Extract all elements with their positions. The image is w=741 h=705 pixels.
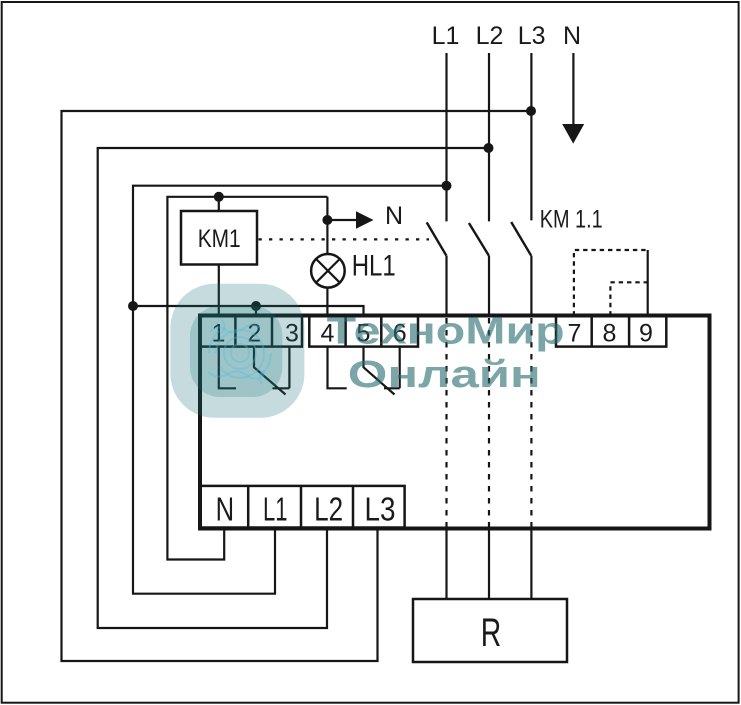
wire phase L3 drop xyxy=(530,53,532,220)
svg-text:N: N xyxy=(385,202,403,230)
node junction on L1 loop at tap xyxy=(128,301,138,311)
wire switch pole c to device xyxy=(530,256,532,316)
arrow neutral N supply xyxy=(562,53,584,144)
terminal block 1-3 xyxy=(201,316,302,348)
wire phase L1 drop xyxy=(445,53,447,221)
dashed link terminal 7 to terminal 9 xyxy=(574,250,648,316)
svg-text:ТехноМир: ТехноМир xyxy=(327,310,565,352)
dashed phase L1 path inside device xyxy=(445,318,447,527)
svg-text:7: 7 xyxy=(568,320,582,348)
switch KM1.1 pole a xyxy=(427,222,447,255)
internal contact 4-5-6 blade from terminal 5 xyxy=(364,347,395,395)
svg-text:9: 9 xyxy=(639,320,653,348)
wire switch pole b to device xyxy=(488,256,490,316)
wire L3 feed loop from bottom terminal L3 up left side to phase L3 xyxy=(62,111,532,661)
internal contact 1-2-3 blade from terminal 2 xyxy=(254,347,286,395)
terminal block 4-6 xyxy=(309,316,418,348)
wire N feed loop from bottom terminal N up left side to node N xyxy=(167,197,327,560)
wire coil KM1 top lead xyxy=(218,197,220,211)
svg-text:N: N xyxy=(563,22,581,50)
wire phase L1 output to load xyxy=(445,531,447,600)
wire L1 feed loop from bottom terminal L1 up left side to phase L1 xyxy=(133,186,447,594)
svg-text:L2: L2 xyxy=(476,22,504,50)
svg-text:L2: L2 xyxy=(314,491,343,528)
svg-text:L3: L3 xyxy=(518,22,546,50)
lamp HL1 xyxy=(311,250,396,288)
svg-text:L1: L1 xyxy=(432,22,460,50)
switch KM1.1 pole b xyxy=(469,223,489,256)
svg-text:N: N xyxy=(216,491,235,528)
svg-text:KM1: KM1 xyxy=(198,225,241,253)
mechanical linkage dashed from KM1 to contacts KM1.1 xyxy=(259,238,430,240)
wire phase L3 output to load xyxy=(530,531,532,600)
internal contact 1-2-3 fixed lead terminal 1 xyxy=(219,347,236,389)
arrow to neutral N at node xyxy=(327,202,403,230)
node junction terminal 2 branch xyxy=(251,301,261,311)
node junction N arrow tap xyxy=(322,215,332,225)
wire phase L2 output to load xyxy=(488,531,490,600)
internal contact 4-5-6 fixed lead terminal 6 xyxy=(384,347,400,389)
contactor coil KM1 xyxy=(181,211,257,265)
device relay unit box xyxy=(200,316,710,529)
svg-text:L3: L3 xyxy=(365,491,396,528)
dashed phase L2 path inside device xyxy=(488,318,490,527)
terminal block N L1 L2 L3 xyxy=(200,486,405,528)
terminal block 7-9 xyxy=(556,316,666,348)
switch KM1.1 pole c xyxy=(511,222,531,256)
svg-text:HL1: HL1 xyxy=(352,250,396,283)
dashed phase L3 path inside device xyxy=(530,318,532,527)
node junction on L3 line xyxy=(526,106,536,116)
wire coil KM1 bottom lead to terminal 1 xyxy=(218,265,220,317)
node junction on L2 line xyxy=(484,143,494,153)
svg-text:Онлайн: Онлайн xyxy=(348,354,541,396)
svg-text:R: R xyxy=(481,611,502,655)
wire phase L2 drop xyxy=(488,53,490,221)
wire lamp HL1 to terminal 4 xyxy=(326,287,328,316)
node junction on L1 line xyxy=(442,181,452,191)
svg-text:KM 1.1: KM 1.1 xyxy=(540,206,603,234)
node junction above coil KM1 xyxy=(214,192,224,202)
wire from N node down to lamp HL1 xyxy=(326,197,328,255)
internal contact 4-5-6 fixed lead terminal 4 xyxy=(328,347,347,389)
wire L2 feed loop from bottom terminal L2 up left side to phase L2 xyxy=(98,148,489,628)
svg-text:L1: L1 xyxy=(263,491,288,528)
wire switch pole a to device xyxy=(445,256,447,316)
svg-text:8: 8 xyxy=(603,320,617,348)
wire L1 tap to terminals 2 and 5 xyxy=(133,306,364,316)
dashed link terminal 8 xyxy=(610,282,647,315)
wire terminal 9 riser xyxy=(647,250,649,316)
load resistor R xyxy=(413,599,567,662)
internal contact 1-2-3 fixed lead terminal 3 xyxy=(273,347,290,389)
